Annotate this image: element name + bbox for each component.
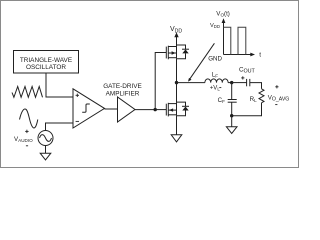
diode D2 body diode of Q2 xyxy=(177,102,190,116)
svg-text:t: t xyxy=(259,52,261,59)
svg-text:RL: RL xyxy=(250,96,257,103)
wire oscillator output to comparator + input xyxy=(46,73,73,97)
svg-text:AMPLIFIER: AMPLIFIER xyxy=(106,90,140,97)
transistor Q2 NMOS xyxy=(166,102,176,116)
svg-text:VO(t): VO(t) xyxy=(216,10,230,17)
node switching output xyxy=(175,81,178,84)
sine-wave annotation xyxy=(20,109,38,128)
resistor RL xyxy=(250,89,264,103)
svg-text:OSCILLATOR: OSCILLATOR xyxy=(26,64,66,71)
node bottom rail xyxy=(230,114,233,117)
wire RL bottom to bottom rail xyxy=(232,103,262,116)
pulse waveform xyxy=(224,27,231,54)
wire inductor to filter node xyxy=(228,82,232,84)
svg-text:GATE-DRIVE: GATE-DRIVE xyxy=(103,83,142,90)
wire Q2 source to ground xyxy=(176,116,178,135)
wire filter node to Cout xyxy=(232,82,247,84)
inductor LF xyxy=(205,72,228,92)
wire Cout to RL top xyxy=(250,83,262,89)
capacitor CF xyxy=(218,83,237,116)
waveform plot Vo(t) xyxy=(210,10,261,58)
svg-text:VO_AVG: VO_AVG xyxy=(268,95,290,103)
oscillator box U3 TRIANGLE-WAVE OSCILLATOR xyxy=(14,51,79,74)
svg-text:LF: LF xyxy=(212,72,218,79)
ground (VAUDIO) xyxy=(40,146,51,160)
ground (output filter) xyxy=(226,127,237,134)
wire buffer output to gate node xyxy=(135,109,155,111)
svg-text:COUT: COUT xyxy=(239,67,256,75)
op-amp U1 comparator xyxy=(73,89,105,128)
wire output node to Q2 drain xyxy=(176,83,178,103)
svg-text:GND: GND xyxy=(208,55,222,62)
wire gate node up to Q1 gate xyxy=(155,53,166,110)
triangle-wave annotation xyxy=(12,87,43,98)
wire output node to inductor xyxy=(177,82,205,84)
svg-text:TRIANGLE-WAVE: TRIANGLE-WAVE xyxy=(20,57,72,64)
wire comparator output to buffer xyxy=(105,108,118,110)
diode D1 body diode of Q1 xyxy=(177,45,190,59)
VDD supply arrow xyxy=(170,26,182,45)
svg-text:VAUDIO: VAUDIO xyxy=(14,136,33,143)
plot y-axis xyxy=(223,21,225,55)
wire bottom rail to ground xyxy=(231,116,233,127)
transistor Q1 PMOS xyxy=(166,45,176,59)
wire Q1 source to output node xyxy=(176,59,178,83)
GND pointer arrow to switching node xyxy=(188,43,222,81)
node gate junction xyxy=(154,108,157,111)
wire gate node to Q2 gate xyxy=(155,109,166,111)
node filter xyxy=(230,81,233,84)
svg-text:+VL: +VL xyxy=(210,86,221,92)
op-amp U2 gate drive buffer xyxy=(103,83,142,122)
plot t-axis xyxy=(224,54,253,56)
wire VAUDIO to comparator - input xyxy=(46,123,74,131)
capacitor Cout xyxy=(239,67,256,87)
svg-text:CF: CF xyxy=(218,97,225,104)
source VAUDIO xyxy=(14,130,53,146)
label VO_AVG xyxy=(268,85,290,104)
svg-text:VDD: VDD xyxy=(210,23,220,29)
ground (Q2 source) xyxy=(171,135,182,142)
